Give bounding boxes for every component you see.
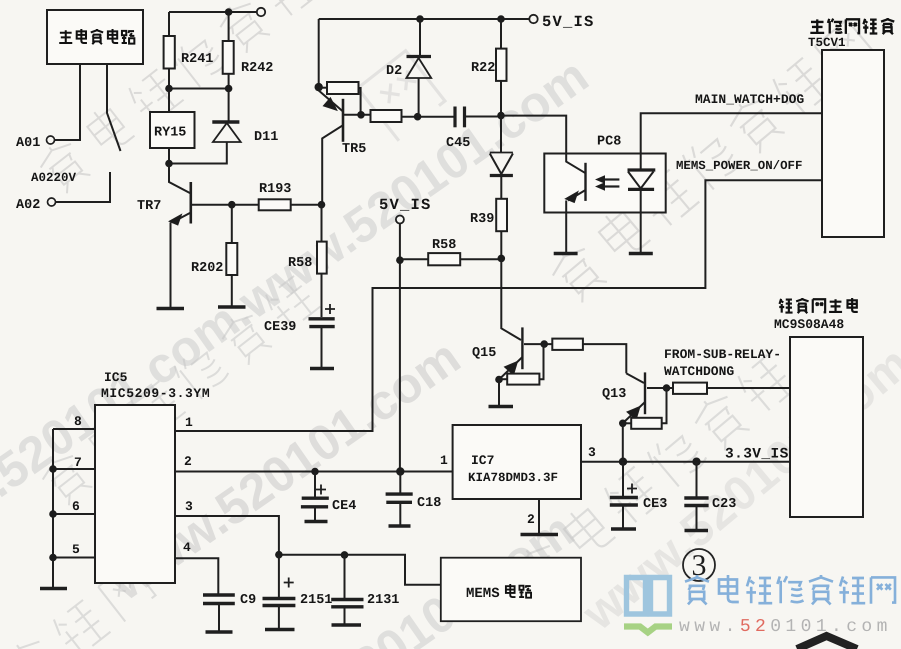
- svg-text:PC8: PC8: [597, 135, 621, 150]
- watermark band B www.520101.com central: [99, 329, 470, 612]
- wire Q15 base resistor to Q13 collector: [583, 344, 626, 373]
- terminal (open) top right of R242: [257, 8, 265, 16]
- wire base resistor to D2 node: [402, 116, 456, 118]
- svg-text:5: 5: [72, 542, 80, 557]
- resistor R193: [259, 199, 291, 210]
- ground TR7: [157, 307, 185, 311]
- resistor Q15 base: [552, 339, 583, 350]
- node TR5 base: [357, 111, 365, 119]
- svg-text:IC5: IC5: [104, 370, 128, 385]
- node CE4: [311, 468, 319, 476]
- node D2 top: [416, 15, 424, 23]
- ground Q15: [489, 405, 514, 409]
- wire RY15 bottom to node: [168, 148, 170, 164]
- svg-text:KIA78DMD3.3F: KIA78DMD3.3F: [468, 471, 558, 485]
- svg-text:Q15: Q15: [472, 346, 496, 361]
- ground PC8 LED: [629, 252, 653, 256]
- node 2131: [341, 551, 349, 559]
- watermark band E bottom-right 家电维修资料网: [511, 349, 799, 603]
- svg-text:R241: R241: [181, 52, 213, 67]
- node Q13 emitter: [619, 420, 627, 428]
- svg-text:www.520101.com: www.520101.com: [679, 617, 892, 637]
- wire down to TR5 emitter node: [318, 19, 320, 87]
- svg-text:3: 3: [185, 499, 193, 514]
- wire to RY15: [168, 89, 170, 113]
- capacitor 2151: [263, 555, 296, 629]
- svg-text:R242: R242: [241, 61, 273, 76]
- wire 5V_IS down: [399, 224, 401, 472]
- svg-text:TR5: TR5: [342, 142, 366, 157]
- resistor R39: [496, 199, 507, 231]
- logo text 家电维修资料网: [685, 575, 895, 604]
- switch blade (AC220V switch): [107, 64, 121, 151]
- switch lower contact wire to A02: [56, 172, 110, 202]
- capacitor C9: [203, 595, 235, 631]
- resistor Q13 base-emitter: [623, 388, 667, 429]
- resistor TR5 feedback: [319, 82, 361, 115]
- box 主电源电路 (main power circuit): [47, 10, 143, 64]
- resistor Q15 base-emitter: [499, 344, 544, 385]
- terminal 5V_IS top: [529, 15, 537, 23]
- watermark band F bottom-left 资料网 fragment: [1, 559, 157, 649]
- PC8 light arrows: [596, 176, 619, 190]
- optocoupler PC8 box: [544, 154, 665, 213]
- svg-text:CE39: CE39: [264, 320, 296, 335]
- node R39/R58h/Q15: [498, 255, 506, 263]
- watermark band G mid-left 家电维修资料网: [36, 271, 321, 508]
- IC5 left bus: [53, 429, 95, 588]
- logo book green base: [624, 627, 672, 633]
- IC5 box MIC5209-3.3YM: [95, 405, 175, 583]
- node R241 bottom: [165, 85, 173, 93]
- wire watchdog to sub box: [707, 387, 790, 389]
- resistor TR5 base: [371, 110, 402, 122]
- svg-text:MIC5209-3.3YM: MIC5209-3.3YM: [101, 386, 210, 401]
- diode below node (to R39): [490, 116, 513, 199]
- PC8 LED: [628, 154, 656, 254]
- vertical R58 under TR5: [317, 201, 327, 317]
- svg-text:A02: A02: [16, 198, 40, 213]
- svg-text:TR7: TR7: [137, 199, 161, 214]
- svg-text:R22: R22: [471, 61, 495, 76]
- watermark band D bottom-right www.520101.com: [572, 336, 901, 641]
- node base/R202: [228, 201, 236, 209]
- wire IC5 pin2 to IC7 pin1: [175, 471, 453, 473]
- transistor TR7: [169, 164, 191, 309]
- capacitor C18: [386, 472, 413, 526]
- IC7 box KIA78DMD3.3F: [453, 425, 581, 499]
- svg-text:3.3V_IS: 3.3V_IS: [725, 447, 789, 463]
- svg-text:RY15: RY15: [154, 126, 186, 141]
- wire 5V top rail: [319, 18, 529, 20]
- node Q15 base: [540, 340, 548, 348]
- svg-text:1: 1: [185, 415, 193, 430]
- svg-text:C45: C45: [446, 136, 470, 151]
- svg-text:3: 3: [588, 445, 596, 460]
- ground R202: [218, 305, 246, 309]
- diode D11: [169, 89, 241, 164]
- box 辅助控制器 MC9S08A48: [790, 337, 863, 517]
- ground IC7 pin2: [521, 533, 559, 537]
- node R58h left: [396, 256, 404, 264]
- ground C23: [685, 529, 709, 533]
- node pin3/2151: [275, 551, 283, 559]
- svg-text:D2: D2: [386, 64, 402, 79]
- resistor R22: [496, 19, 507, 116]
- watermark band B3 bottom-middle www fragment: [213, 502, 584, 649]
- svg-text:2: 2: [184, 454, 192, 469]
- svg-text:R39: R39: [470, 212, 494, 227]
- node TR5 emitter/feedback: [315, 83, 323, 91]
- wire IC7 pin2 to ground: [538, 499, 540, 534]
- wire R242 bottom: [228, 74, 230, 89]
- PC8 phototransistor: [565, 154, 585, 254]
- svg-text:8: 8: [74, 414, 82, 429]
- wire top rail to 5V terminal: [169, 11, 257, 13]
- transistor TR5: [319, 91, 343, 205]
- svg-text:6: 6: [72, 499, 80, 514]
- ground PC8 transistor: [554, 252, 578, 256]
- wire R241 top: [168, 12, 170, 36]
- node R242 bottom: [225, 85, 233, 93]
- ground CE3: [611, 527, 636, 531]
- ground C9: [206, 630, 233, 634]
- svg-text:MEMS_POWER_ON/OFF: MEMS_POWER_ON/OFF: [676, 159, 802, 173]
- node Q13 base: [663, 384, 671, 392]
- wire MEMS_POWER_ON/OFF to IC5 pin1: [175, 180, 822, 431]
- wire TR5 base: [343, 114, 371, 116]
- node R22 top: [497, 15, 505, 23]
- diode D2: [406, 19, 431, 117]
- svg-text:C18: C18: [417, 496, 441, 511]
- transistor Q13: [623, 372, 645, 423]
- node C18: [396, 467, 404, 475]
- svg-text:5V_IS: 5V_IS: [379, 196, 432, 214]
- resistor Q13 base (watchdog): [673, 383, 707, 394]
- ground CE4: [305, 520, 328, 524]
- watermark lone 网 top-middle: [358, 51, 447, 141]
- wire Q13 base: [647, 387, 673, 389]
- wire TR7 base to R193: [191, 204, 259, 206]
- terminal A01: [47, 136, 55, 144]
- wire Q13 emitter to 3.3V rail: [622, 423, 624, 461]
- svg-text:IC7: IC7: [471, 453, 494, 468]
- wire R241 bottom: [168, 69, 170, 89]
- svg-text:R202: R202: [191, 261, 223, 276]
- resistor R241: [164, 36, 175, 69]
- svg-text:C9: C9: [240, 593, 256, 608]
- svg-text:MC9S08A48: MC9S08A48: [774, 317, 844, 332]
- wire between R241/R242 bottoms: [169, 88, 229, 90]
- box MEMS电路: [441, 558, 581, 622]
- svg-text:D11: D11: [254, 130, 278, 145]
- svg-text:R58: R58: [288, 256, 312, 271]
- resistor R242: [223, 41, 234, 74]
- wire IC5 pin3 down: [175, 516, 279, 555]
- capacitor C23: [684, 462, 708, 530]
- svg-text:MEMS: MEMS: [466, 586, 500, 602]
- box 主微控制器 T5CV1: [822, 50, 884, 237]
- terminal A02: [48, 198, 56, 206]
- wire IC5 pin4 to C9: [175, 558, 218, 594]
- wire R242 top: [228, 12, 230, 41]
- svg-text:FROM-SUB-RELAY-: FROM-SUB-RELAY-: [664, 347, 781, 362]
- node R22/C45/PC8: [497, 112, 505, 120]
- ground 2131: [332, 623, 362, 627]
- node C23: [692, 458, 700, 466]
- svg-text:7: 7: [74, 455, 82, 470]
- terminal 5V_IS mid: [396, 216, 404, 224]
- label 主微控制器: [810, 18, 894, 34]
- node top rail junction: [225, 8, 233, 16]
- svg-text:A01: A01: [16, 136, 40, 151]
- label 辅助控制器: [779, 298, 857, 313]
- resistor R202: [226, 205, 237, 307]
- capacitor CE4: [301, 472, 329, 521]
- wire node to PC8 collector: [501, 116, 566, 154]
- svg-text:5V_IS: 5V_IS: [542, 13, 595, 31]
- ground 2151: [265, 628, 295, 632]
- wire 3.3V rail: [581, 461, 790, 463]
- svg-text:WATCHDONG: WATCHDONG: [664, 364, 734, 379]
- capacitor CE39: [309, 304, 336, 368]
- capacitor CE3: [610, 462, 638, 528]
- wire Q15 base: [524, 343, 552, 345]
- ground CE39: [310, 367, 334, 371]
- wire box to A01: [55, 64, 80, 140]
- resistor R58 horizontal: [400, 253, 501, 265]
- transistor Q15: [500, 258, 523, 379]
- svg-text:1: 1: [440, 453, 448, 468]
- node D2/C45: [414, 113, 422, 121]
- black chevron bottom: [797, 636, 857, 649]
- relay RY15: [150, 112, 195, 148]
- watermark band A upper-left 家电维修资料网: [34, 0, 363, 196]
- svg-text:4: 4: [183, 540, 191, 555]
- svg-text:CE3: CE3: [643, 497, 667, 512]
- wire MAIN_WATCH+DOG: [641, 113, 822, 153]
- wire R193 to node: [291, 204, 322, 206]
- ground C18: [389, 524, 411, 528]
- svg-text:C23: C23: [712, 497, 736, 512]
- logo book icon: [627, 576, 670, 614]
- svg-text:2: 2: [527, 512, 535, 527]
- node pin7: [49, 465, 57, 473]
- wire bottom rail pin3 to MEMS: [279, 555, 441, 585]
- wire R39 bottom to node: [500, 231, 502, 258]
- svg-text:T5CV1: T5CV1: [808, 36, 846, 50]
- wire Q15 emitter to ground: [498, 380, 500, 407]
- watermark band C top-right 家电维修资料网: [546, 16, 877, 305]
- ground IC5 bus: [40, 587, 67, 591]
- svg-text:MAIN_WATCH+DOG: MAIN_WATCH+DOG: [695, 92, 804, 107]
- svg-text:R58: R58: [432, 238, 456, 253]
- svg-text:2151: 2151: [300, 593, 332, 608]
- watermark long band www.520101.com left-to-top: [0, 47, 598, 574]
- svg-text:Q13: Q13: [602, 387, 626, 402]
- capacitor C45: [455, 107, 501, 128]
- node Q15 emitter: [495, 376, 503, 384]
- capacitor 2131: [331, 555, 363, 624]
- circled 3: [683, 549, 715, 582]
- svg-text:A0220V: A0220V: [31, 171, 77, 185]
- node RY15/D11/TR7: [165, 160, 173, 168]
- svg-text:2131: 2131: [367, 593, 399, 608]
- svg-text:R193: R193: [259, 182, 291, 197]
- node CE3: [619, 458, 627, 466]
- node pin6: [49, 510, 57, 518]
- svg-text:CE4: CE4: [332, 499, 356, 514]
- node pin5: [49, 554, 57, 562]
